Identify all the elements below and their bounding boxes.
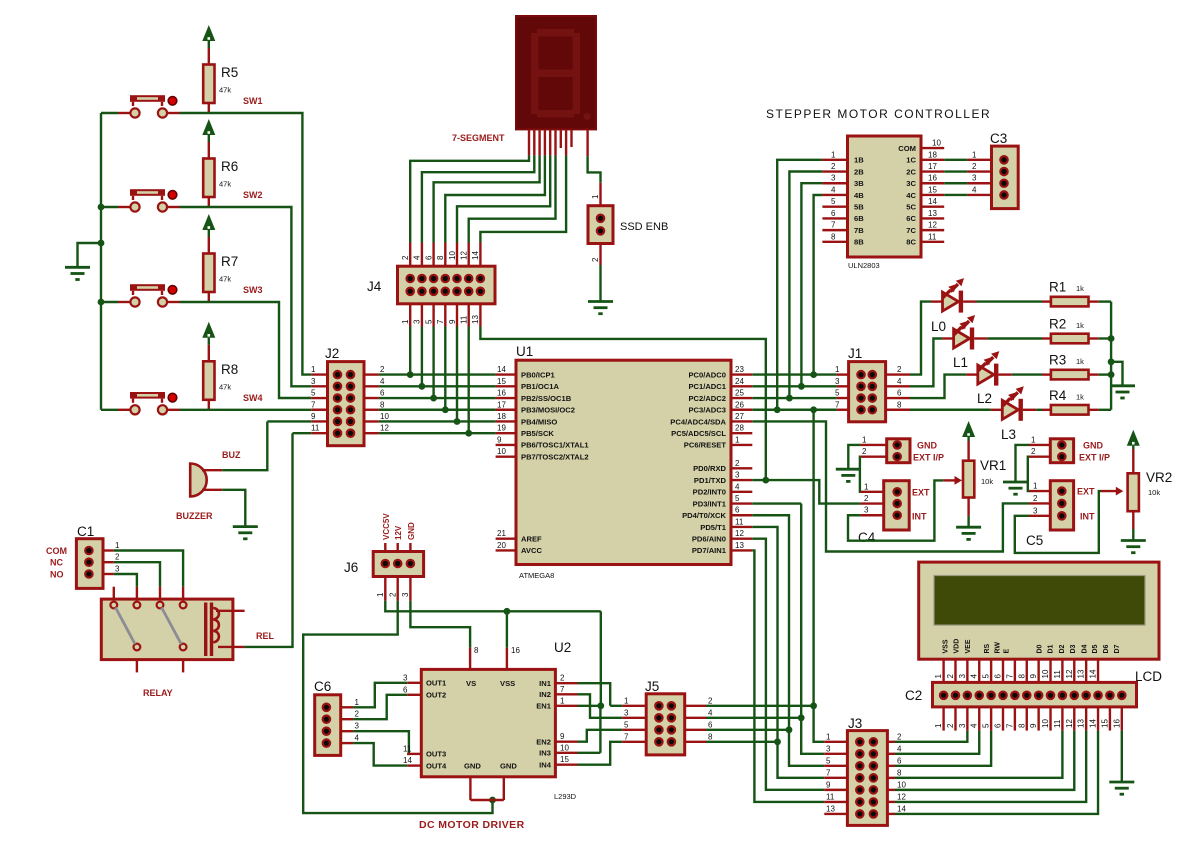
- U1 right pin 12 stub: [731, 537, 752, 539]
- svg-text:2: 2: [864, 494, 869, 503]
- svg-text:10: 10: [897, 780, 906, 789]
- svg-text:PC3/ADC3: PC3/ADC3: [688, 406, 726, 415]
- wire EN1 vert lower: [599, 706, 601, 753]
- J2 right stub pin4: [364, 385, 379, 387]
- J1 right stub pin8: [886, 409, 910, 411]
- wire SW3 to J2 pin5: [180, 302, 312, 398]
- svg-text:3: 3: [311, 377, 316, 386]
- J3 left stub pin11: [824, 801, 847, 803]
- svg-text:PB0/ICP1: PB0/ICP1: [521, 370, 556, 379]
- LCD pin stub 9: [1037, 659, 1039, 691]
- wire J6 pin3 to VS: [410, 601, 470, 648]
- wire C1 pin2 to relay: [114, 562, 160, 587]
- svg-text:7C: 7C: [906, 226, 916, 235]
- U1 right pin 24 stub: [731, 385, 752, 387]
- svg-text:2: 2: [1031, 447, 1036, 456]
- wire VR1 to gnd: [967, 516, 969, 527]
- svg-text:7: 7: [624, 732, 629, 741]
- U1 right pin 26 stub: [731, 409, 752, 411]
- LCD pin stub 5: [990, 659, 992, 691]
- J4 bottom stub pin5: [432, 304, 434, 327]
- svg-text:5: 5: [424, 319, 433, 324]
- wire J3 pin10 to C2 pin12: [895, 731, 1074, 790]
- svg-text:12: 12: [897, 792, 906, 801]
- wire R bus vertical: [1110, 302, 1112, 410]
- potentiometer VR2: [1128, 473, 1139, 511]
- svg-text:1: 1: [831, 150, 836, 159]
- svg-text:R6: R6: [221, 159, 238, 174]
- svg-text:VR2: VR2: [1146, 470, 1172, 485]
- resistor R7: [203, 254, 214, 293]
- power arrow VCC for R7: [202, 214, 215, 230]
- wire C5u pin2 to C5l pin1: [1028, 457, 1029, 491]
- U2 right stub IN1: [555, 682, 577, 684]
- svg-text:6: 6: [735, 506, 740, 515]
- C5l stub1: [1029, 490, 1050, 492]
- wire C6 pin2 to OUT2: [353, 695, 407, 719]
- resistor R3: [1042, 373, 1051, 375]
- wire J5 pin4 row: [706, 717, 801, 719]
- wire R1 right: [1099, 300, 1111, 302]
- resistor R8: [203, 361, 214, 400]
- LCD pin stub 1: [942, 659, 944, 691]
- svg-text:D4: D4: [1082, 644, 1089, 653]
- J6 top stub1: [384, 543, 386, 552]
- wire SW2 left: [101, 206, 118, 208]
- svg-text:2: 2: [831, 162, 836, 171]
- svg-text:4: 4: [970, 674, 979, 679]
- ULN right stub pin14: [921, 205, 944, 207]
- J4 bottom stub pin3: [421, 304, 423, 327]
- U2 left stub OUT1: [407, 682, 421, 684]
- resistor R1: [1042, 300, 1051, 302]
- wire R2 right: [1099, 337, 1111, 339]
- svg-text:IN3: IN3: [539, 749, 551, 758]
- svg-text:VR1: VR1: [980, 458, 1006, 473]
- junction J4 col6: [465, 430, 472, 437]
- svg-text:R2: R2: [1049, 317, 1066, 332]
- svg-text:C2: C2: [905, 688, 922, 703]
- J2 right stub pin2: [364, 373, 379, 375]
- svg-text:3: 3: [1033, 506, 1038, 515]
- svg-text:1: 1: [311, 365, 316, 374]
- ULN right stub pin15: [921, 194, 944, 196]
- wire J4 col2 to row: [421, 327, 423, 387]
- svg-text:7-SEGMENT: 7-SEGMENT: [452, 133, 505, 143]
- wire J1 pin2 to L0: [910, 302, 931, 375]
- svg-text:PB2/SS/OC1B: PB2/SS/OC1B: [521, 394, 572, 403]
- J6 bottom stub2: [397, 577, 399, 601]
- wire J4 pin13 to PD1 vertical: [480, 327, 765, 481]
- svg-text:PC4/ADC4/SDA: PC4/ADC4/SDA: [670, 417, 726, 426]
- J4 top stub pin2: [409, 243, 411, 267]
- wire J2 pin2 to U1: [379, 373, 496, 375]
- svg-text:PD7/AIN1: PD7/AIN1: [692, 546, 727, 555]
- 7-seg pin stub 1: [528, 129, 530, 155]
- wire J3 pin14 to C2 pin14: [895, 731, 1098, 814]
- J3 right stub pin10: [887, 789, 895, 791]
- junction J5 pin4: [798, 714, 805, 721]
- svg-text:PC6/RESET: PC6/RESET: [684, 441, 727, 450]
- wire PC3 to ULN 1B: [777, 160, 822, 410]
- power arrow VCC for R5: [202, 25, 215, 41]
- svg-text:10k: 10k: [1148, 488, 1160, 497]
- svg-text:28: 28: [735, 424, 744, 433]
- wire 7-seg to J4 col2: [422, 155, 534, 242]
- J3 right stub pin12: [887, 801, 895, 803]
- svg-text:2: 2: [946, 674, 955, 679]
- C5u stub1: [1029, 444, 1050, 446]
- svg-text:10: 10: [560, 743, 569, 752]
- svg-text:2: 2: [1033, 494, 1038, 503]
- ULN left stub pin7: [822, 229, 847, 231]
- ULN right stub pin12: [921, 229, 944, 231]
- transistor array ULN2803 body: [848, 136, 922, 257]
- J4 top stub pin14: [479, 243, 481, 267]
- J4 top stub pin4: [421, 243, 423, 267]
- wire L3 to R4: [1036, 409, 1042, 411]
- svg-text:11: 11: [1053, 719, 1062, 728]
- svg-text:2C: 2C: [906, 167, 916, 176]
- U2 right stub EN1: [555, 705, 577, 707]
- LCD pin stub 11: [1061, 659, 1063, 691]
- svg-text:7B: 7B: [854, 226, 864, 235]
- svg-text:GND: GND: [917, 441, 938, 451]
- svg-text:7: 7: [436, 319, 445, 324]
- svg-text:EXT I/P: EXT I/P: [1079, 452, 1110, 462]
- svg-text:9: 9: [826, 780, 831, 789]
- ULN left stub pin2: [822, 170, 847, 172]
- svg-text:13: 13: [735, 541, 744, 550]
- LCD pin stub 12: [1073, 659, 1075, 691]
- wire J3 pin12 to C2 pin13: [895, 731, 1086, 802]
- svg-text:8: 8: [897, 768, 902, 777]
- J3 right stub pin2: [887, 741, 895, 743]
- wire J3 pin2 to C2 pin3: [895, 731, 967, 742]
- LCD pin stub 4: [978, 659, 980, 691]
- svg-text:6: 6: [403, 685, 408, 694]
- svg-text:5B: 5B: [854, 202, 864, 211]
- C2 bottom stub 6: [1002, 707, 1004, 731]
- svg-text:5: 5: [624, 720, 629, 729]
- J5 left stub pin7: [622, 741, 646, 743]
- wire INT1 down: [800, 504, 802, 718]
- resistor R6: [203, 159, 214, 198]
- J4 top stub pin8: [444, 243, 446, 267]
- LCD pin stub 2: [954, 659, 956, 691]
- svg-text:9: 9: [1029, 723, 1038, 728]
- J6 top stub2: [397, 543, 399, 552]
- svg-text:SW3: SW3: [243, 285, 263, 295]
- J3 left stub pin1: [824, 741, 847, 743]
- svg-text:1: 1: [1033, 482, 1038, 491]
- svg-text:9: 9: [497, 435, 502, 444]
- ULN left stub pin6: [822, 217, 847, 219]
- C2 bottom stub 1: [942, 707, 944, 731]
- LCD pin stub 13: [1085, 659, 1087, 691]
- svg-text:6B: 6B: [854, 214, 864, 223]
- wire ULN 1C to C3: [944, 159, 967, 161]
- U1 left pin 9 stub: [496, 444, 516, 446]
- wire relay to J2 pin11: [245, 433, 293, 647]
- svg-text:15: 15: [560, 755, 569, 764]
- svg-text:26: 26: [735, 400, 744, 409]
- svg-text:COM: COM: [898, 144, 916, 153]
- svg-text:15: 15: [928, 185, 937, 194]
- wire vert to J3 pin7: [778, 742, 825, 778]
- wire J4 col1 to row: [409, 327, 411, 375]
- LCD pin stub 8: [1026, 659, 1028, 691]
- svg-text:20: 20: [497, 541, 506, 550]
- connector C6: [315, 695, 341, 756]
- wire J3 pin4 to C2 pin4: [895, 731, 979, 754]
- 7-seg NC pin stub a: [560, 129, 562, 148]
- wire 7-seg to J4 col1: [410, 155, 529, 242]
- svg-text:6: 6: [708, 720, 713, 729]
- wire SW1 to J2 pin1: [180, 113, 312, 375]
- svg-text:4: 4: [897, 377, 902, 386]
- connector J6: [373, 552, 423, 577]
- U1 left pin 14 stub: [496, 373, 516, 375]
- svg-text:C6: C6: [314, 679, 331, 694]
- wire SW4 to J2 pin7: [180, 409, 312, 411]
- ground VR1: [956, 526, 981, 529]
- C2 bottom stub 9: [1037, 707, 1039, 731]
- junction J5 pin8: [774, 738, 781, 745]
- wire buzzer to ground: [222, 490, 245, 527]
- wire J2 pin6 to U1: [379, 397, 496, 399]
- svg-text:1: 1: [376, 592, 385, 597]
- U1 right pin 13 stub: [731, 549, 752, 551]
- svg-text:PB4/MISO: PB4/MISO: [521, 417, 557, 426]
- svg-text:U2: U2: [554, 640, 571, 655]
- svg-text:16: 16: [1112, 719, 1121, 728]
- wire 7-seg to J4 col4: [445, 155, 545, 242]
- U2 right stub IN2: [555, 693, 577, 695]
- svg-text:6C: 6C: [906, 214, 916, 223]
- svg-text:U1: U1: [516, 344, 533, 359]
- svg-text:18: 18: [497, 412, 506, 421]
- C3 stub pin3: [967, 182, 991, 184]
- wire C6 pin4 to OUT4: [353, 743, 407, 766]
- U2 right stub EN2: [555, 741, 577, 743]
- svg-text:11: 11: [826, 792, 835, 801]
- svg-text:8B: 8B: [854, 238, 864, 247]
- U1 right pin 11 stub: [731, 526, 752, 528]
- svg-text:16: 16: [511, 646, 520, 655]
- wire L0 to R1: [977, 300, 1043, 302]
- ground C5: [1003, 481, 1028, 484]
- wire C2 pin16 to ground: [1121, 731, 1123, 782]
- C2 bottom stub 3: [966, 707, 968, 731]
- svg-text:1: 1: [1031, 435, 1036, 444]
- svg-text:SW2: SW2: [243, 190, 263, 200]
- C3 stub pin2: [967, 170, 991, 172]
- svg-text:1: 1: [355, 698, 360, 707]
- 7-seg pin stub 5: [549, 129, 551, 155]
- J4 top stub pin10: [456, 243, 458, 267]
- svg-text:4: 4: [970, 723, 979, 728]
- LCD pin stub 3: [966, 659, 968, 691]
- J3 left stub pin3: [824, 753, 847, 755]
- svg-text:23: 23: [735, 365, 744, 374]
- junction R gnd: [1108, 358, 1115, 365]
- 7-seg pin stub 7: [565, 129, 567, 155]
- wire J4 col6 to row: [468, 327, 470, 434]
- svg-text:14: 14: [471, 251, 480, 260]
- wire J5 pin8 row: [706, 741, 778, 743]
- connector C5 upper: [1050, 439, 1073, 463]
- J2 left stub pin9: [311, 420, 327, 422]
- ULN right stub pin13: [921, 217, 944, 219]
- C2 bottom stub 15: [1109, 707, 1111, 731]
- svg-text:8: 8: [708, 732, 713, 741]
- U1 right pin 2 stub: [731, 467, 752, 469]
- svg-text:12: 12: [460, 251, 469, 260]
- svg-text:3: 3: [624, 708, 629, 717]
- wire J2 pin9 left: [267, 420, 311, 422]
- C4l stub1: [860, 491, 883, 493]
- svg-text:25: 25: [735, 389, 744, 398]
- ULN left stub pin5: [822, 205, 847, 207]
- wire PD7 down: [752, 550, 824, 802]
- wire IN1 to J5 pin1: [578, 683, 611, 706]
- connector J4: [398, 266, 496, 304]
- svg-text:7: 7: [560, 685, 565, 694]
- J2 right stub pin6: [364, 397, 379, 399]
- J2 right stub pin12: [364, 432, 379, 434]
- svg-text:OUT4: OUT4: [426, 761, 447, 770]
- svg-text:R1: R1: [1049, 280, 1066, 295]
- J5 right stub pin8: [685, 741, 706, 743]
- svg-text:14: 14: [1089, 719, 1098, 728]
- wire J2 pin11 left: [293, 432, 312, 434]
- svg-text:10k: 10k: [981, 477, 993, 486]
- svg-text:3: 3: [401, 592, 410, 597]
- junction VSS16: [504, 608, 511, 615]
- J3 right stub pin14: [887, 813, 895, 815]
- wire C5u pin1 to gnd: [1016, 445, 1030, 482]
- connector J5: [646, 694, 685, 755]
- svg-text:ATMEGA8: ATMEGA8: [519, 571, 554, 580]
- svg-text:47k: 47k: [219, 275, 231, 284]
- svg-text:3B: 3B: [854, 179, 864, 188]
- U1 left pin 21 stub: [496, 537, 516, 539]
- J5 left stub pin1: [622, 705, 646, 707]
- junction PC0: [810, 371, 817, 378]
- U2 right stub IN3: [555, 752, 577, 754]
- svg-text:2: 2: [897, 365, 902, 374]
- svg-text:9: 9: [560, 732, 565, 741]
- junction PC2: [786, 395, 793, 402]
- ground left: [65, 266, 90, 269]
- svg-text:1k: 1k: [1076, 321, 1084, 330]
- J1 left stub pin3: [837, 385, 849, 387]
- svg-text:3: 3: [413, 319, 422, 324]
- svg-text:3: 3: [864, 506, 869, 515]
- C6 stub3: [341, 730, 353, 732]
- svg-text:5: 5: [735, 494, 740, 503]
- svg-text:DC MOTOR DRIVER: DC MOTOR DRIVER: [419, 819, 525, 831]
- svg-text:11: 11: [403, 744, 412, 753]
- svg-text:J2: J2: [325, 346, 339, 361]
- svg-text:1k: 1k: [1076, 357, 1084, 366]
- J2 right stub pin8: [364, 409, 379, 411]
- svg-text:18: 18: [928, 150, 937, 159]
- wire 7-seg to J4 col7: [480, 155, 566, 242]
- svg-text:17: 17: [928, 162, 937, 171]
- wire PC2 to ULN 2B: [789, 172, 822, 399]
- svg-text:VCC5V: VCC5V: [382, 513, 391, 540]
- C2 bottom stub 16: [1121, 707, 1123, 731]
- wire 7-seg to J4 col3: [434, 155, 540, 242]
- J3 right stub pin4: [887, 753, 895, 755]
- svg-text:PD5/T1: PD5/T1: [700, 523, 727, 532]
- wire J1 pin7 vertical: [812, 410, 814, 706]
- svg-text:11: 11: [735, 517, 744, 526]
- svg-text:4: 4: [972, 185, 977, 194]
- svg-text:2: 2: [380, 365, 385, 374]
- svg-text:12: 12: [1065, 669, 1074, 678]
- svg-text:3C: 3C: [906, 179, 916, 188]
- U1 right pin 23 stub: [731, 373, 752, 375]
- svg-text:PC1/ADC1: PC1/ADC1: [688, 382, 726, 391]
- U1 right pin 1 stub: [731, 444, 752, 446]
- ULN left stub pin3: [822, 182, 847, 184]
- wire PC2 row: [752, 397, 836, 399]
- svg-text:VS: VS: [466, 679, 476, 688]
- wire IN2 to J5 pin3: [578, 694, 623, 718]
- wire J4 col5 to row: [456, 327, 458, 422]
- J1 left stub pin7: [837, 409, 849, 411]
- junction J4 col5: [454, 418, 461, 425]
- svg-text:EXT: EXT: [912, 488, 930, 498]
- wire vert to J3 pin1: [814, 706, 825, 742]
- svg-text:IN2: IN2: [539, 690, 551, 699]
- svg-text:3: 3: [972, 174, 977, 183]
- 7-seg pin stub 6: [554, 129, 556, 155]
- svg-text:4: 4: [413, 255, 422, 260]
- svg-text:8: 8: [474, 646, 479, 655]
- svg-text:5: 5: [311, 389, 316, 398]
- svg-text:IN1: IN1: [539, 679, 552, 688]
- svg-text:PD6/AIN0: PD6/AIN0: [692, 534, 726, 543]
- wire PD6 down: [752, 539, 824, 790]
- svg-text:L1: L1: [953, 355, 968, 370]
- U1 right pin 4 stub: [731, 491, 752, 493]
- J5 right stub pin6: [685, 729, 706, 731]
- U2 GND stub left: [469, 777, 471, 800]
- svg-text:OUT1: OUT1: [426, 679, 447, 688]
- wire ULN 4C to C3: [944, 194, 967, 196]
- power arrow VCC for R6: [202, 119, 215, 135]
- svg-text:6: 6: [424, 255, 433, 260]
- C1 stub1: [103, 549, 114, 551]
- junction TXD row: [762, 477, 769, 484]
- svg-text:RELAY: RELAY: [143, 688, 173, 698]
- svg-text:D5: D5: [1092, 644, 1099, 653]
- svg-text:L2: L2: [977, 391, 992, 406]
- svg-text:19: 19: [497, 424, 506, 433]
- svg-text:3: 3: [403, 673, 408, 682]
- LCD pin stub 14: [1097, 659, 1099, 691]
- svg-text:R8: R8: [221, 362, 238, 377]
- svg-text:R7: R7: [221, 254, 238, 269]
- junction U2 gnd: [489, 797, 496, 804]
- svg-text:D3: D3: [1070, 644, 1077, 653]
- wire IN3 stub: [578, 752, 601, 754]
- svg-text:10: 10: [497, 447, 506, 456]
